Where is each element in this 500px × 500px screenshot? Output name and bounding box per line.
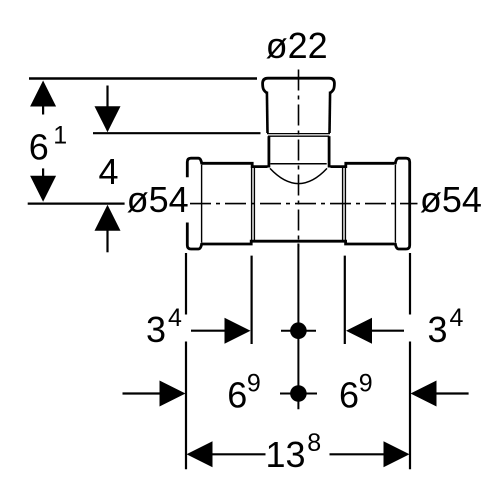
svg-text:9: 9: [359, 370, 373, 398]
dim 6_1 arrow down: [30, 168, 56, 201]
dim 6_1 arrow up: [30, 81, 56, 115]
left bead inner line: [201, 165, 203, 243]
branch neck left: [267, 136, 270, 167]
right bead outline: [395, 158, 410, 249]
row1 arrow right-pointing: [225, 318, 251, 344]
row1 leader left: [191, 330, 228, 332]
body top edge left socket: [202, 163, 268, 166]
row3 arrow right-pointing at right line: [384, 441, 410, 467]
extension line right inner: [344, 256, 346, 344]
extension line left outer: [185, 253, 187, 315]
row2 leader far right: [435, 392, 469, 394]
svg-text:13: 13: [266, 434, 306, 475]
left socket depth double line: [251, 165, 253, 242]
dimension ref line bottom (centerline level, left of o54 label): [28, 203, 125, 205]
svg-text:4: 4: [168, 304, 182, 332]
left bead outline: [187, 158, 202, 177]
svg-text:8: 8: [307, 429, 321, 457]
body top edge right socket: [331, 163, 395, 166]
extension line right outer: [409, 253, 411, 315]
inner weld arc curve: [270, 168, 327, 183]
svg-text:1: 1: [53, 122, 67, 150]
tee branch socket wall right: [328, 92, 331, 134]
row3 leader right: [330, 453, 387, 455]
extension line center: [297, 244, 299, 410]
row2 center dot: [290, 385, 307, 402]
row3 leader left: [210, 453, 266, 455]
dim 4 arrow up: [95, 205, 121, 253]
svg-text:ø54: ø54: [420, 179, 482, 220]
row2 arrow left-pointing: [411, 381, 437, 407]
row2 arrow right-pointing: [160, 381, 186, 407]
right bead inner line: [394, 165, 396, 243]
svg-text:3: 3: [146, 309, 166, 350]
bore line across branch opening: [270, 163, 326, 165]
svg-text:9: 9: [247, 370, 261, 398]
row1 leader right: [369, 330, 404, 332]
tee branch socket wall left: [266, 92, 269, 134]
row1 arrow left-pointing: [346, 318, 372, 344]
right socket depth double line: [342, 168, 344, 240]
dim 4 arrow down: [95, 86, 121, 133]
svg-text:4: 4: [450, 304, 464, 332]
branch neck right: [328, 136, 331, 167]
svg-text:3: 3: [428, 309, 448, 350]
dimension ref line mid (aligns with branch press end): [93, 132, 261, 134]
svg-text:6: 6: [339, 375, 359, 416]
body bottom edge: [202, 241, 395, 244]
svg-text:4: 4: [99, 151, 119, 192]
branch press depth double line: [267, 133, 330, 135]
row3 arrow left-pointing at left line: [187, 441, 213, 467]
centerline vertical (branch axis): [298, 70, 300, 248]
row1 center dot: [290, 322, 307, 339]
extension line left inner: [251, 256, 253, 344]
svg-text:6: 6: [29, 127, 49, 168]
centerline horizontal (run axis): [190, 203, 418, 205]
dimension ref line top (aligns with branch rim top): [29, 77, 257, 80]
tee branch rim bead: [263, 78, 335, 93]
svg-text:ø22: ø22: [266, 25, 328, 66]
svg-text:6: 6: [227, 375, 247, 416]
row2 leader far left: [123, 392, 162, 394]
svg-text:ø54: ø54: [127, 179, 189, 220]
